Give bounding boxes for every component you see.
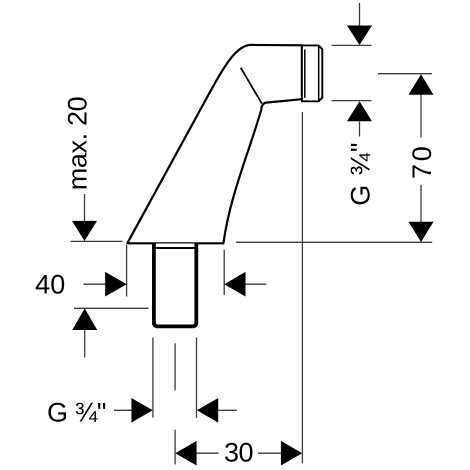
G3/4 top: down arrow (347, 26, 372, 46)
max20 lower line (74, 307, 149, 309)
30 left arrow (175, 441, 196, 466)
arrows (72, 26, 434, 466)
svg-text:G ¾": G ¾" (47, 398, 106, 428)
svg-text:G ¾": G ¾" (345, 142, 375, 206)
spout body outline (127, 45, 302, 243)
30 dim lines (196, 452, 219, 454)
G3/4 bottom dim lines (114, 409, 132, 411)
stem (threaded shank) (154, 244, 196, 327)
svg-text:70: 70 (407, 143, 437, 179)
threaded outlet G3/4 (302, 45, 322, 101)
thread top extension line (332, 44, 372, 46)
body fold line (241, 68, 262, 104)
G3/4 bottom left arrow (197, 398, 218, 423)
70 dim line segments (420, 95, 422, 138)
max20 upper line (71, 240, 123, 242)
G3/4 top: up arrow (347, 101, 372, 121)
thread bottom extension line (332, 100, 372, 102)
40 dim lines (84, 283, 106, 285)
svg-text:30: 30 (224, 438, 253, 468)
G3/4 top dim leader lines (359, 3, 361, 26)
40 right arrow (105, 272, 126, 297)
svg-text:max. 20: max. 20 (62, 97, 92, 191)
max20 down arrow (72, 221, 97, 241)
mounting plane line (236, 241, 432, 243)
30 right arrow (281, 441, 302, 466)
centerline of stem (174, 343, 176, 390)
stem thread line (155, 247, 196, 249)
G3/4 bottom right arrow (131, 398, 152, 423)
svg-text:40: 40 (35, 270, 65, 300)
70 down arrow (409, 222, 434, 242)
70 up arrow (409, 74, 434, 95)
40 left arrow (224, 272, 245, 297)
max20 up arrow (72, 308, 97, 330)
70 top extension line (378, 73, 432, 75)
